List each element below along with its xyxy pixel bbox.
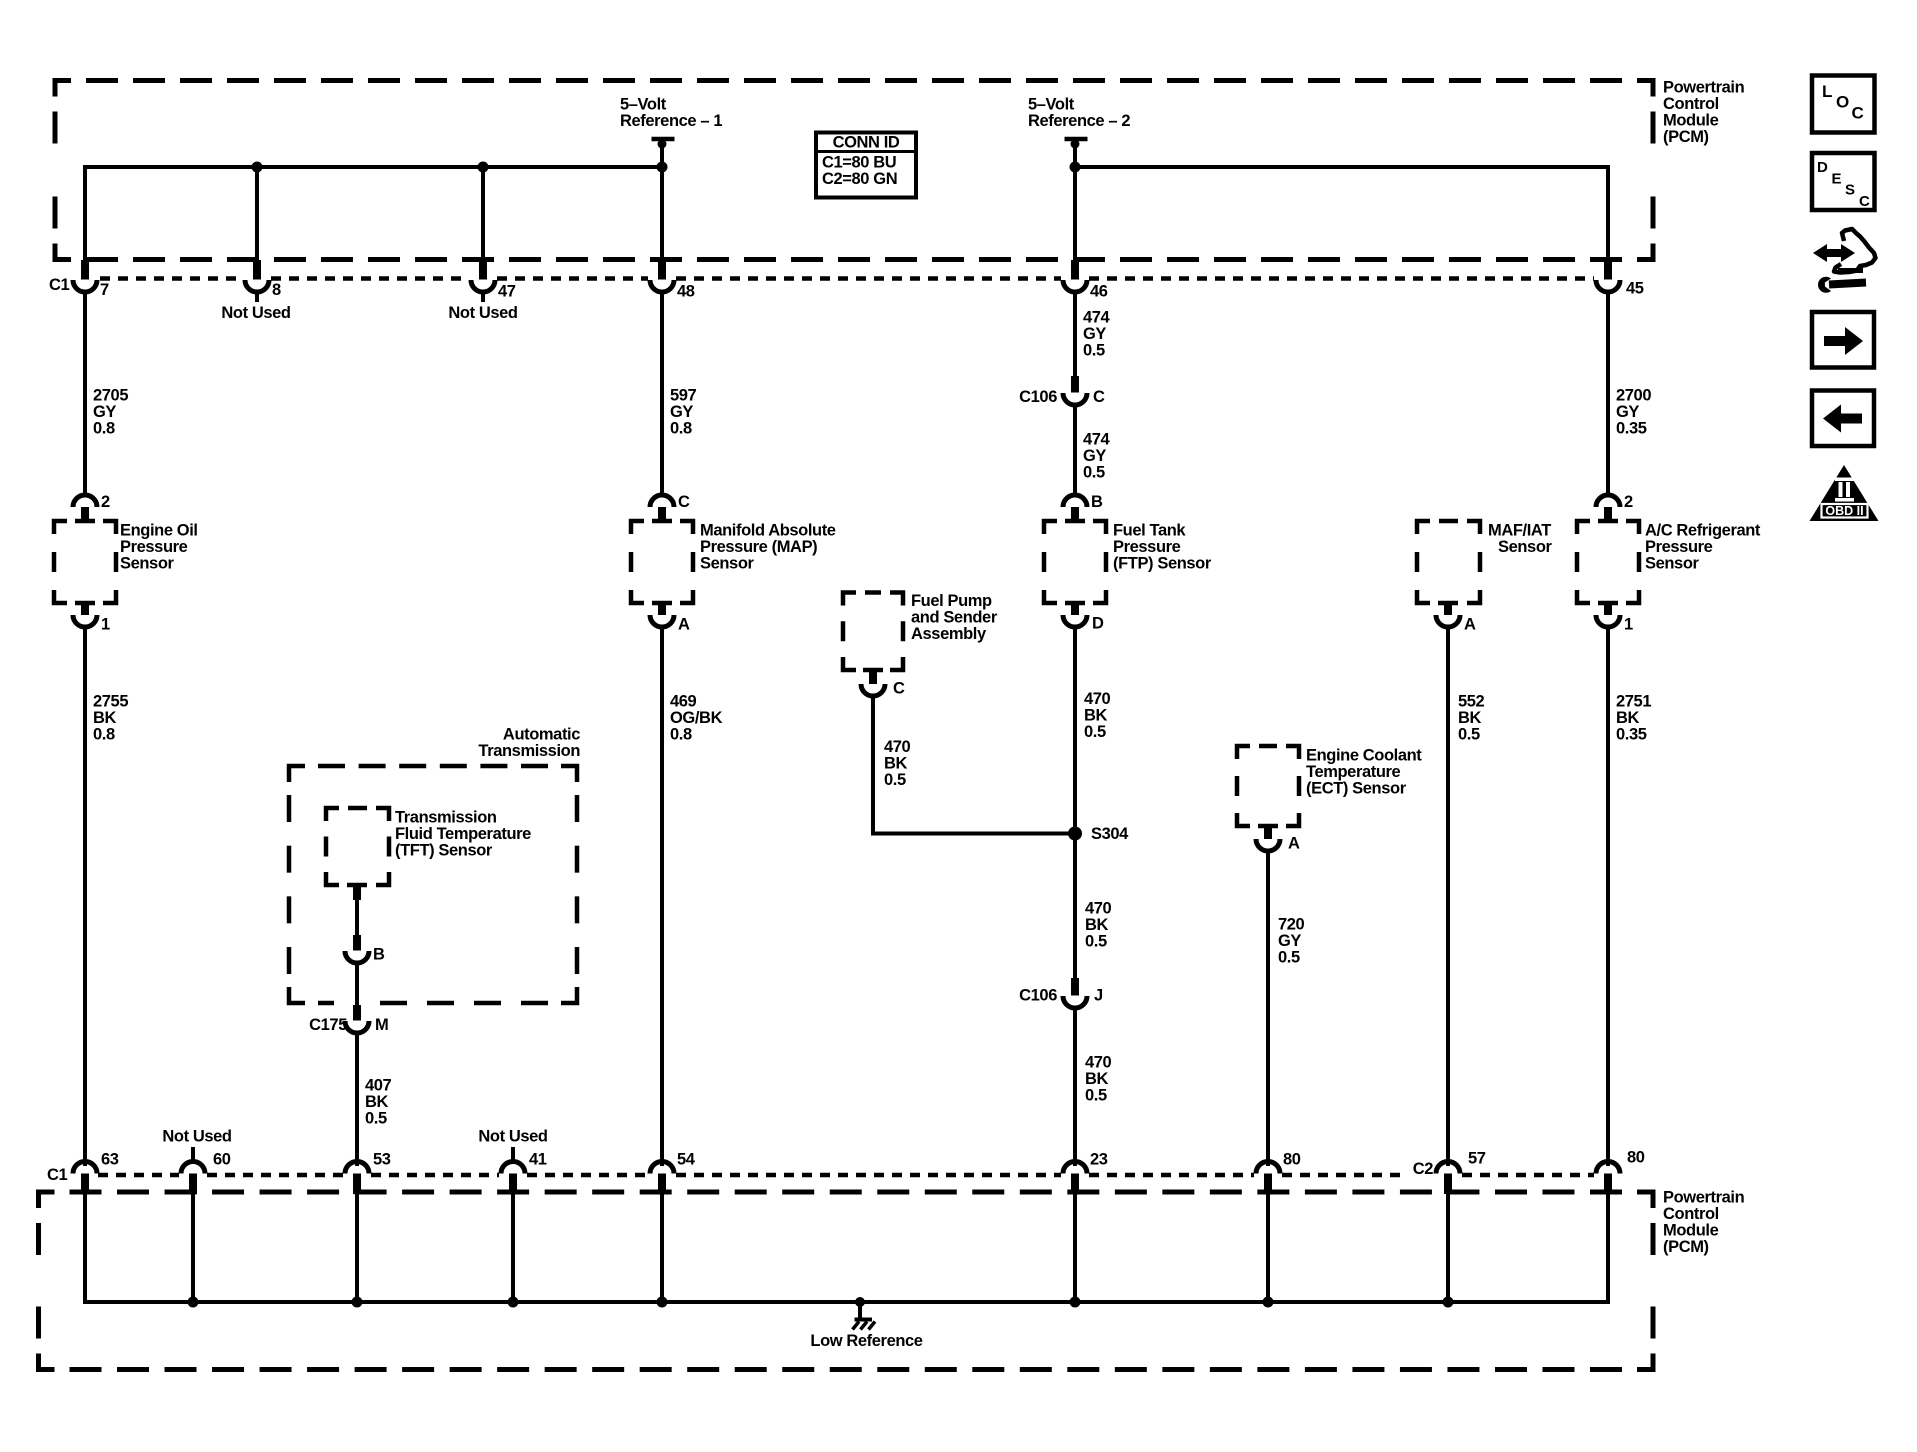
bottom PCM module dashed box xyxy=(39,1192,55,1208)
svg-text:0.8: 0.8 xyxy=(670,420,692,438)
LOC icon box xyxy=(1812,76,1875,133)
svg-text:46: 46 xyxy=(1090,283,1108,301)
svg-text:Control: Control xyxy=(1663,1205,1719,1223)
svg-text:552: 552 xyxy=(1458,693,1485,711)
svg-text:Temperature: Temperature xyxy=(1306,763,1401,781)
svg-text:OG/BK: OG/BK xyxy=(670,709,723,727)
svg-text:OBD II: OBD II xyxy=(1825,504,1863,518)
connector C1 pin 23 xyxy=(1063,1162,1087,1174)
junction low reference x=1268 xyxy=(1263,1297,1274,1308)
connector C1 pin 7 xyxy=(81,260,89,280)
splice S304 xyxy=(1068,827,1082,841)
svg-text:0.8: 0.8 xyxy=(93,726,115,744)
svg-text:0.5: 0.5 xyxy=(1458,726,1480,744)
wire 5V reference 1 bus xyxy=(85,165,662,169)
svg-text:Not Used: Not Used xyxy=(448,304,517,322)
FTP sensor pin D xyxy=(1065,601,1085,606)
diagnostic tool icon xyxy=(1813,244,1855,262)
svg-text:Pressure (MAP): Pressure (MAP) xyxy=(700,538,817,556)
wire pin8 drop xyxy=(255,167,259,262)
CONN ID table xyxy=(816,133,916,198)
junction low reference x=1075 xyxy=(1070,1297,1081,1308)
svg-text:and Sender: and Sender xyxy=(911,609,998,627)
AC sensor pin 1 xyxy=(1598,601,1618,606)
junction low reference x=1448 xyxy=(1443,1297,1454,1308)
svg-text:MAF/IAT: MAF/IAT xyxy=(1488,522,1551,540)
svg-text:80: 80 xyxy=(1283,1151,1301,1169)
junction low reference x=662 xyxy=(657,1297,668,1308)
svg-text:Manifold Absolute: Manifold Absolute xyxy=(700,522,836,540)
OBD II icon xyxy=(1810,465,1879,521)
svg-text:57: 57 xyxy=(1468,1150,1486,1168)
wire 2751 BK AC sensor to pin 80 xyxy=(1606,625,1610,1166)
svg-text:469: 469 xyxy=(670,693,697,711)
connector C1 pin 47 (not used) xyxy=(479,260,487,280)
connector C1 pin 80 left xyxy=(1256,1162,1280,1174)
svg-text:2751: 2751 xyxy=(1616,693,1651,711)
svg-text:(TFT) Sensor: (TFT) Sensor xyxy=(395,842,493,860)
svg-text:Not Used: Not Used xyxy=(162,1128,231,1146)
svg-text:Pressure: Pressure xyxy=(1113,538,1181,556)
svg-text:GY: GY xyxy=(1278,932,1301,950)
svg-text:0.8: 0.8 xyxy=(670,726,692,744)
svg-text:470: 470 xyxy=(1085,900,1112,918)
svg-text:BK: BK xyxy=(1085,916,1109,934)
svg-text:GY: GY xyxy=(93,403,116,421)
DESC icon box xyxy=(1812,153,1875,210)
connector C1 pin 45 xyxy=(1604,260,1612,280)
svg-text:720: 720 xyxy=(1278,916,1305,934)
wire pin54 to low reference bus xyxy=(660,1192,664,1302)
svg-text:BK: BK xyxy=(365,1093,389,1111)
5-Volt Reference - 1 terminal xyxy=(652,137,675,142)
svg-text:CONN ID: CONN ID xyxy=(833,134,900,152)
svg-text:A: A xyxy=(1288,835,1300,853)
junction pin 48 xyxy=(657,162,668,173)
svg-text:C175: C175 xyxy=(309,1016,347,1034)
svg-text:GY: GY xyxy=(1616,403,1639,421)
svg-text:Fuel Pump: Fuel Pump xyxy=(911,592,992,610)
svg-text:597: 597 xyxy=(670,387,697,405)
AC sensor pin 2 xyxy=(1596,495,1620,507)
svg-text:A/C Refrigerant: A/C Refrigerant xyxy=(1645,522,1761,540)
svg-text:53: 53 xyxy=(373,1151,391,1169)
svg-text:C1: C1 xyxy=(49,276,70,294)
fuel pump and sender assembly xyxy=(843,593,856,606)
connector C1 pin 53 xyxy=(345,1162,369,1174)
svg-text:Sensor: Sensor xyxy=(120,555,175,573)
svg-text:47: 47 xyxy=(498,283,516,301)
junction low reference x=357 xyxy=(352,1297,363,1308)
wire 5V reference 2 bus xyxy=(1075,165,1608,169)
svg-text:Engine Oil: Engine Oil xyxy=(120,522,198,540)
wire 470 BK FTP to splice S304 xyxy=(1073,625,1077,834)
svg-text:470: 470 xyxy=(1085,1054,1112,1072)
svg-text:474: 474 xyxy=(1083,309,1111,327)
svg-text:A: A xyxy=(1464,616,1476,634)
svg-text:C2: C2 xyxy=(1413,1160,1434,1178)
MAP sensor pin A xyxy=(652,601,672,606)
svg-text:C: C xyxy=(678,493,690,511)
svg-text:B: B xyxy=(373,946,385,964)
svg-text:S: S xyxy=(1845,182,1855,199)
svg-text:2: 2 xyxy=(1624,493,1633,511)
wire 407 BK C175 to pin 53 xyxy=(355,1032,359,1166)
svg-text:Module: Module xyxy=(1663,112,1719,130)
junction pin 46 xyxy=(1070,162,1081,173)
ECT sensor pin A xyxy=(1258,824,1278,829)
svg-text:Low Reference: Low Reference xyxy=(810,1332,922,1350)
svg-text:Fuel Tank: Fuel Tank xyxy=(1113,522,1186,540)
svg-text:C1=80 BU: C1=80 BU xyxy=(822,154,896,172)
connector C1 pin 60 (not used) xyxy=(191,1147,195,1163)
svg-text:Sensor: Sensor xyxy=(700,555,755,573)
wire 470 BK fuel pump down xyxy=(871,694,875,834)
svg-text:B: B xyxy=(1091,493,1103,511)
svg-text:(PCM): (PCM) xyxy=(1663,1238,1709,1256)
svg-text:2: 2 xyxy=(101,493,110,511)
svg-text:1: 1 xyxy=(1624,616,1633,634)
connector C2 pin 80 right xyxy=(1596,1162,1620,1174)
MAP sensor pin C xyxy=(650,495,674,507)
junction low reference x=513 xyxy=(508,1297,519,1308)
svg-text:0.35: 0.35 xyxy=(1616,420,1647,438)
back arrow icon xyxy=(1812,391,1874,447)
svg-text:(ECT) Sensor: (ECT) Sensor xyxy=(1306,780,1407,798)
inline connector C175 terminal M xyxy=(353,1005,361,1021)
svg-text:0.5: 0.5 xyxy=(1085,1087,1107,1105)
wire 469 OG/BK MAP to pin 54 xyxy=(660,625,664,1166)
svg-text:80: 80 xyxy=(1627,1149,1645,1167)
wire 5V ref 1 down xyxy=(660,141,664,262)
svg-text:A: A xyxy=(678,616,690,634)
svg-text:Module: Module xyxy=(1663,1222,1719,1240)
svg-text:Transmission: Transmission xyxy=(478,742,580,760)
svg-text:Not Used: Not Used xyxy=(478,1128,547,1146)
svg-text:470: 470 xyxy=(884,738,911,756)
svg-text:M: M xyxy=(375,1016,388,1034)
svg-text:C2=80 GN: C2=80 GN xyxy=(822,170,897,188)
svg-text:J: J xyxy=(1094,987,1103,1005)
svg-text:0.5: 0.5 xyxy=(1083,342,1105,360)
svg-text:60: 60 xyxy=(213,1151,231,1169)
svg-text:7: 7 xyxy=(100,281,109,299)
junction low reference x=193 xyxy=(188,1297,199,1308)
svg-text:GY: GY xyxy=(670,403,693,421)
wire fuel pump to splice S304 xyxy=(871,832,1075,836)
svg-text:BK: BK xyxy=(1084,707,1108,725)
junction pin 8 xyxy=(252,162,263,173)
svg-text:O: O xyxy=(1836,93,1849,112)
wire pin45 drop xyxy=(1606,165,1610,262)
svg-text:48: 48 xyxy=(677,283,695,301)
MAF/IAT sensor pin A xyxy=(1438,601,1458,606)
svg-text:0.5: 0.5 xyxy=(884,771,906,789)
svg-text:1: 1 xyxy=(101,616,110,634)
svg-text:Powertrain: Powertrain xyxy=(1663,1189,1745,1207)
A/C refrigerant pressure sensor xyxy=(1577,521,1590,534)
svg-text:Engine Coolant: Engine Coolant xyxy=(1306,747,1422,765)
svg-text:Pressure: Pressure xyxy=(120,538,188,556)
engine oil pressure sensor pin 1 xyxy=(75,601,95,606)
connector C1 pin 46 xyxy=(1071,260,1079,280)
svg-text:0.5: 0.5 xyxy=(365,1110,387,1128)
wire 2700 GY pin45 to AC sensor xyxy=(1606,290,1610,496)
svg-text:5–Volt: 5–Volt xyxy=(620,96,667,114)
svg-text:D: D xyxy=(1817,159,1828,176)
svg-text:GY: GY xyxy=(1083,325,1106,343)
svg-text:BK: BK xyxy=(1458,709,1482,727)
connector C1 pin 54 xyxy=(650,1162,674,1174)
svg-text:Reference – 1: Reference – 1 xyxy=(620,112,722,130)
wire pin23 to low reference bus xyxy=(1073,1192,1077,1302)
svg-text:BK: BK xyxy=(93,709,117,727)
wire 470 BK S304 to C106 J xyxy=(1073,834,1077,981)
inline connector C106 terminal J xyxy=(1071,978,1079,996)
svg-text:0.8: 0.8 xyxy=(93,420,115,438)
svg-text:C1: C1 xyxy=(47,1166,68,1184)
wire 474 GY C106 to FTP sensor xyxy=(1073,404,1077,496)
svg-text:BK: BK xyxy=(1616,709,1640,727)
svg-text:23: 23 xyxy=(1090,1151,1108,1169)
svg-text:5–Volt: 5–Volt xyxy=(1028,96,1075,114)
svg-text:Powertrain: Powertrain xyxy=(1663,79,1745,97)
svg-text:2705: 2705 xyxy=(93,387,128,405)
engine coolant temperature ECT sensor xyxy=(1237,746,1250,759)
svg-text:Automatic: Automatic xyxy=(503,726,580,744)
fuel tank pressure FTP sensor xyxy=(1044,521,1057,534)
svg-text:E: E xyxy=(1832,171,1842,188)
svg-text:407: 407 xyxy=(365,1077,392,1095)
svg-text:C: C xyxy=(1093,388,1105,406)
svg-text:S304: S304 xyxy=(1091,825,1129,843)
forward arrow icon xyxy=(1812,312,1874,368)
MAF/IAT sensor xyxy=(1417,521,1430,534)
low reference bus wire xyxy=(85,1300,1608,1304)
svg-text:(FTP) Sensor: (FTP) Sensor xyxy=(1113,555,1212,573)
svg-text:Fluid Temperature: Fluid Temperature xyxy=(395,825,531,843)
svg-text:8: 8 xyxy=(272,281,281,299)
5-Volt Reference - 2 terminal xyxy=(1065,137,1088,142)
svg-text:C: C xyxy=(1859,193,1870,210)
bottom connector row dotted line xyxy=(98,1173,179,1178)
ground symbol low reference xyxy=(858,1302,862,1318)
wire 597 GY pin48 to MAP sensor xyxy=(660,290,664,496)
connector C2 pin 57 xyxy=(1436,1162,1460,1174)
wire 470 BK C106 to pin 23 xyxy=(1073,1007,1077,1166)
junction pin 47 xyxy=(478,162,489,173)
svg-text:0.5: 0.5 xyxy=(1083,464,1105,482)
svg-text:2755: 2755 xyxy=(93,693,128,711)
connector C1 pin 48 xyxy=(658,260,666,280)
svg-text:L: L xyxy=(1822,82,1832,101)
top PCM module dashed box xyxy=(55,81,71,97)
svg-text:C: C xyxy=(1852,104,1864,123)
wire pin80 left to low reference bus xyxy=(1266,1192,1270,1302)
wire 2755 BK oil sensor to pin 63 xyxy=(83,625,87,1166)
svg-text:C: C xyxy=(893,680,905,698)
engine oil pressure sensor xyxy=(54,521,67,534)
wire pin60 to low reference bus xyxy=(191,1192,195,1302)
svg-text:D: D xyxy=(1092,615,1104,633)
svg-text:0.5: 0.5 xyxy=(1278,949,1300,967)
engine oil pressure sensor pin 2 xyxy=(73,495,97,507)
wire pin57 to low reference bus xyxy=(1446,1192,1450,1302)
FTP sensor pin B xyxy=(1063,495,1087,507)
svg-text:GY: GY xyxy=(1083,447,1106,465)
wire 720 GY ECT to pin 80 xyxy=(1266,849,1270,1166)
wire pin53 to low reference bus xyxy=(355,1192,359,1302)
svg-text:0.5: 0.5 xyxy=(1084,723,1106,741)
svg-text:Sensor: Sensor xyxy=(1498,538,1553,556)
wire 474 GY pin46 to C106 xyxy=(1073,290,1077,378)
svg-text:Pressure: Pressure xyxy=(1645,538,1713,556)
svg-text:BK: BK xyxy=(1085,1070,1109,1088)
svg-text:45: 45 xyxy=(1626,280,1644,298)
wire pin7 drop xyxy=(83,165,87,262)
svg-text:Not Used: Not Used xyxy=(221,304,290,322)
svg-text:0.5: 0.5 xyxy=(1085,933,1107,951)
ground junction xyxy=(855,1297,865,1307)
svg-text:54: 54 xyxy=(677,1151,696,1169)
automatic transmission dashed box xyxy=(289,766,305,782)
wire pin47 drop xyxy=(481,167,485,262)
svg-text:Reference – 2: Reference – 2 xyxy=(1028,112,1130,130)
svg-text:2700: 2700 xyxy=(1616,387,1651,405)
TFT sensor pin B xyxy=(347,883,367,888)
wire pin41 to low reference bus xyxy=(511,1192,515,1302)
svg-text:63: 63 xyxy=(101,1151,119,1169)
wire pin80 right to low reference bus xyxy=(1606,1192,1610,1304)
svg-text:C106: C106 xyxy=(1019,388,1057,406)
svg-text:BK: BK xyxy=(884,755,908,773)
wire 552 BK MAF to pin 57 xyxy=(1446,625,1450,1166)
manifold absolute pressure MAP sensor xyxy=(631,521,644,534)
svg-text:Sensor: Sensor xyxy=(1645,555,1700,573)
svg-text:Transmission: Transmission xyxy=(395,809,497,827)
svg-text:474: 474 xyxy=(1083,431,1111,449)
svg-text:(PCM): (PCM) xyxy=(1663,128,1709,146)
wire 2705 GY pin7 to oil pressure sensor xyxy=(83,290,87,496)
connector C1 pin 41 (not used) xyxy=(511,1147,515,1163)
svg-text:C106: C106 xyxy=(1019,987,1057,1005)
connector C1 pin 8 (not used) xyxy=(253,260,261,280)
top connector row dotted line xyxy=(100,276,243,281)
wire TFT to C175 xyxy=(355,962,359,1007)
svg-text:Control: Control xyxy=(1663,95,1719,113)
svg-text:41: 41 xyxy=(529,1151,547,1169)
inline connector C106 terminal C xyxy=(1071,376,1079,393)
wire pin63 to low reference bus xyxy=(83,1192,87,1304)
transmission fluid temperature TFT sensor xyxy=(326,808,339,821)
fuel pump pin C xyxy=(863,668,883,673)
svg-text:Assembly: Assembly xyxy=(911,625,987,643)
wire 5V ref 2 down xyxy=(1073,141,1077,262)
svg-text:470: 470 xyxy=(1084,690,1111,708)
connector C1 pin 63 xyxy=(73,1162,97,1174)
svg-text:0.35: 0.35 xyxy=(1616,726,1647,744)
